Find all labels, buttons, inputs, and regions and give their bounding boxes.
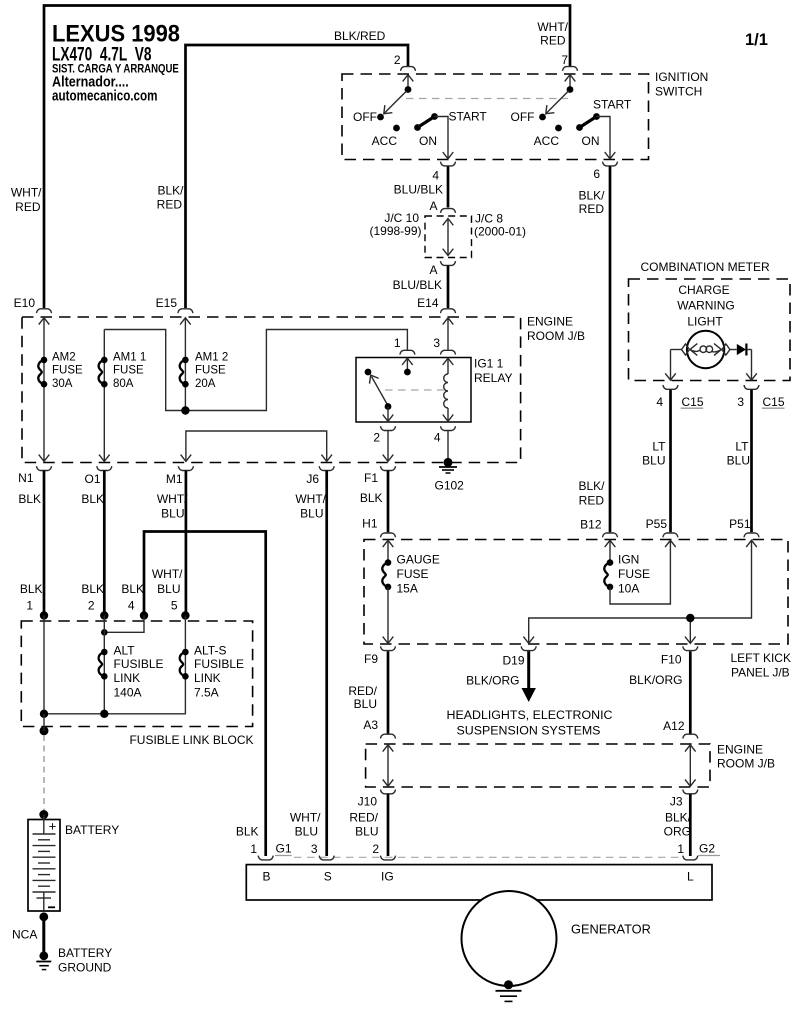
- connector E15: [156, 296, 193, 325]
- fusible link block box: [21, 621, 252, 727]
- wire BLK/RED pin 6 to B12: [609, 166, 612, 532]
- svg-text:ENGINE: ENGINE: [717, 743, 763, 757]
- svg-text:B12: B12: [580, 518, 602, 532]
- svg-text:RED: RED: [157, 198, 183, 212]
- label LT BLU left: [642, 439, 666, 467]
- connector N1: [18, 466, 51, 506]
- svg-text:SIST. CARGA Y ARRANQUE: SIST. CARGA Y ARRANQUE: [52, 61, 179, 75]
- svg-text:BLK/ORG: BLK/ORG: [466, 674, 519, 688]
- svg-text:E10: E10: [14, 296, 36, 310]
- svg-text:BLK: BLK: [18, 492, 41, 506]
- headlights text: [447, 708, 613, 738]
- svg-text:4: 4: [434, 431, 441, 445]
- svg-text:3: 3: [433, 336, 440, 350]
- connector 3 C15: [737, 385, 785, 409]
- svg-text:START: START: [593, 98, 632, 112]
- ignition switch pole 1: [353, 75, 487, 159]
- svg-text:WHT/: WHT/: [11, 186, 42, 200]
- junction dots bottom rail: [40, 710, 109, 718]
- junction dot on terminal 2 wire: [101, 629, 108, 636]
- relay link dashed: [385, 389, 444, 391]
- battery ground: [36, 951, 51, 969]
- wire LT BLU right to P51: [750, 390, 753, 533]
- svg-text:2: 2: [394, 53, 401, 67]
- wire J3 to generator L: [689, 794, 692, 856]
- svg-text:BLK/: BLK/: [578, 189, 605, 203]
- pass-through arrow A12-J3: [685, 745, 696, 786]
- svg-text:F1: F1: [364, 471, 378, 485]
- svg-text:FUSE: FUSE: [52, 365, 83, 377]
- svg-text:BLK/ORG: BLK/ORG: [629, 673, 682, 687]
- node battery positive dot: [39, 810, 48, 819]
- generator ground: [496, 980, 522, 1001]
- svg-text:O1: O1: [84, 472, 100, 486]
- ignition switch label: [655, 70, 708, 99]
- svg-text:LIGHT: LIGHT: [687, 315, 723, 329]
- wire relay pin 2 to F1: [383, 431, 394, 461]
- svg-text:ORG: ORG: [664, 825, 691, 839]
- svg-text:SWITCH: SWITCH: [655, 85, 702, 99]
- ignition switch pole 2: [511, 75, 632, 159]
- svg-text:BLU: BLU: [161, 507, 184, 521]
- svg-text:BLK/: BLK/: [665, 811, 692, 825]
- svg-text:BLU: BLU: [295, 825, 318, 839]
- svg-text:G1: G1: [276, 842, 292, 856]
- connector pin 6: [593, 162, 617, 181]
- svg-text:J/C 8: J/C 8: [475, 212, 503, 226]
- title block: [52, 21, 180, 105]
- svg-text:G102: G102: [435, 479, 465, 493]
- label BLK/RED at E15 wire: [157, 184, 185, 212]
- svg-text:1: 1: [26, 599, 33, 613]
- connector generator IG: [381, 856, 396, 860]
- svg-text:NCA: NCA: [12, 928, 37, 942]
- wire J10 to generator IG: [387, 794, 390, 856]
- label BLU/BLK upper: [394, 182, 443, 213]
- wire generator B to fusible link 4: [144, 532, 266, 857]
- svg-text:RED/: RED/: [348, 684, 377, 698]
- svg-text:LT: LT: [652, 439, 666, 453]
- connector relay pin 1: [394, 336, 415, 355]
- svg-text:RED: RED: [579, 494, 605, 508]
- wire N1 to fusible link block: [43, 471, 46, 616]
- svg-text:FUSE: FUSE: [397, 567, 429, 581]
- svg-text:E15: E15: [156, 296, 178, 310]
- connector pin 4: [432, 162, 455, 183]
- svg-text:J/C 10: J/C 10: [384, 211, 419, 225]
- svg-text:BLU: BLU: [300, 507, 323, 521]
- charge warning light bulb: [671, 331, 737, 368]
- svg-text:1/1: 1/1: [745, 31, 768, 49]
- ignition switch box: [342, 74, 649, 160]
- svg-text:J10: J10: [358, 795, 378, 809]
- connector F9: [364, 646, 396, 666]
- junction dot AM1-2 / bus: [181, 406, 189, 414]
- svg-text:OFF: OFF: [353, 110, 377, 124]
- connector 4 C15: [656, 385, 704, 409]
- svg-text:4: 4: [128, 599, 135, 613]
- connector B12: [580, 518, 617, 538]
- C15 underline left: [681, 407, 704, 409]
- svg-text:BLK: BLK: [20, 582, 43, 596]
- svg-text:OFF: OFF: [511, 110, 535, 124]
- connector F10: [661, 646, 698, 666]
- label WHT/RED at pin 7: [537, 20, 568, 48]
- svg-text:HEADLIGHTS, ELECTRONIC: HEADLIGHTS, ELECTRONIC: [447, 708, 613, 722]
- left kick panel label: [731, 651, 791, 680]
- connector P51: [729, 517, 759, 537]
- battery cable dashed: [43, 735, 45, 810]
- svg-text:BLK: BLK: [236, 825, 259, 839]
- svg-text:BLU/BLK: BLU/BLK: [394, 182, 443, 196]
- svg-text:COMBINATION METER: COMBINATION METER: [641, 260, 770, 274]
- svg-text:AM1 1: AM1 1: [113, 352, 146, 364]
- svg-text:BLU: BLU: [157, 582, 180, 596]
- svg-text:ROOM J/B: ROOM J/B: [527, 329, 585, 343]
- wire LT BLU left to P55: [669, 390, 672, 533]
- label WHT/RED left wire: [11, 186, 42, 215]
- svg-text:A: A: [429, 199, 437, 213]
- svg-text:1: 1: [394, 336, 401, 350]
- svg-text:4: 4: [432, 169, 439, 183]
- connector E14: [441, 309, 456, 325]
- stub rail to boundary dot: [43, 714, 45, 731]
- wire BLU/BLK pin 4 to J/C: [447, 167, 450, 208]
- connector A12: [683, 734, 698, 738]
- svg-text:BLK/RED: BLK/RED: [334, 29, 386, 43]
- connector A3: [381, 734, 396, 738]
- label BLK/ORG A12: [629, 673, 685, 733]
- svg-text:7: 7: [561, 53, 568, 67]
- svg-text:ENGINE: ENGINE: [527, 315, 573, 329]
- svg-text:WHT/: WHT/: [537, 20, 568, 34]
- wire O1 to fusible link block: [103, 471, 106, 616]
- fuse AM2 with wire E10-N1: [38, 318, 83, 461]
- svg-text:RED: RED: [579, 202, 605, 216]
- svg-text:P55: P55: [646, 517, 668, 531]
- wire relay pin 4 to ground: [447, 431, 449, 462]
- svg-text:BLK: BLK: [81, 582, 104, 596]
- wire F10 to A12: [689, 651, 692, 733]
- relay label: [474, 357, 512, 386]
- svg-text:S: S: [324, 870, 332, 884]
- svg-text:BLU: BLU: [355, 825, 378, 839]
- svg-text:BATTERY: BATTERY: [58, 946, 112, 960]
- label J/C 10 (1998-99): [369, 211, 421, 238]
- svg-text:2: 2: [372, 842, 379, 856]
- wire F1 to H1: [387, 471, 390, 533]
- svg-text:BLU: BLU: [727, 454, 750, 468]
- svg-text:BLK/: BLK/: [157, 184, 184, 198]
- svg-text:3: 3: [737, 395, 744, 409]
- engine room J/B 2 label: [717, 743, 775, 771]
- connector O1: [81, 466, 111, 506]
- G2 underline: [699, 855, 721, 857]
- wire F9 to A3: [387, 651, 390, 733]
- svg-text:C15: C15: [682, 395, 704, 409]
- svg-text:automecanico.com: automecanico.com: [52, 88, 158, 104]
- battery: [28, 815, 60, 912]
- svg-text:FUSE: FUSE: [618, 567, 650, 581]
- svg-text:F9: F9: [364, 652, 378, 666]
- svg-text:J6: J6: [306, 472, 319, 486]
- connector pin 2: [394, 53, 416, 71]
- generator connector strip dashed: [294, 856, 680, 858]
- svg-text:IGN: IGN: [618, 553, 639, 567]
- label LT BLU right: [727, 439, 750, 467]
- wire E14 to relay pin 3: [447, 318, 449, 350]
- svg-text:ON: ON: [582, 134, 600, 148]
- svg-text:LINK: LINK: [194, 671, 221, 685]
- meter exit drop right: [746, 350, 757, 381]
- label BLK/ORG 1 G2: [664, 811, 716, 857]
- relay switch contact: [365, 358, 413, 421]
- diode: [737, 344, 752, 356]
- wire BLK/RED E15 to ignition pin 2: [186, 45, 409, 308]
- connector relay pin 3: [433, 336, 455, 355]
- connector relay pin 4: [434, 426, 456, 444]
- svg-text:BLK: BLK: [360, 491, 383, 505]
- svg-text:BATTERY: BATTERY: [65, 823, 119, 837]
- C15 underline right: [762, 407, 785, 409]
- engine room J/B label: [527, 315, 585, 344]
- svg-text:A3: A3: [363, 718, 378, 732]
- connector E10: [14, 296, 52, 325]
- label J/C 8 (2000-01): [474, 212, 526, 239]
- connector F1: [360, 466, 396, 505]
- svg-text:6: 6: [593, 167, 600, 181]
- svg-text:LINK: LINK: [114, 671, 141, 685]
- svg-text:FUSE: FUSE: [113, 365, 144, 377]
- battery ground label: [58, 946, 112, 975]
- svg-text:WARNING: WARNING: [677, 299, 735, 313]
- svg-text:PANEL J/B: PANEL J/B: [731, 666, 790, 680]
- svg-text:WHT/: WHT/: [152, 567, 183, 581]
- svg-text:B: B: [263, 870, 271, 884]
- svg-text:BLU: BLU: [642, 454, 665, 468]
- FLB jog terminal 4 to 2: [104, 616, 144, 633]
- ground G102: [435, 458, 465, 493]
- svg-text:H1: H1: [362, 517, 378, 531]
- svg-text:FUSIBLE: FUSIBLE: [194, 657, 244, 671]
- svg-text:START: START: [449, 110, 488, 124]
- svg-text:P51: P51: [729, 517, 751, 531]
- label BLK/RED below pin 6: [578, 189, 605, 217]
- svg-text:3: 3: [311, 842, 318, 856]
- svg-text:BLK/: BLK/: [578, 479, 605, 493]
- svg-text:ROOM J/B: ROOM J/B: [717, 757, 775, 771]
- generator terminal labels: [263, 870, 695, 884]
- svg-text:L: L: [687, 870, 694, 884]
- svg-text:N1: N1: [18, 471, 34, 485]
- svg-text:GAUGE: GAUGE: [397, 553, 440, 567]
- junction connector J/C box: [425, 209, 472, 266]
- fusible link ALT-S: [44, 616, 244, 714]
- svg-text:SUSPENSION SYSTEMS: SUSPENSION SYSTEMS: [457, 724, 601, 738]
- svg-text:ACC: ACC: [372, 134, 398, 148]
- wire BLU/BLK J/C to E14: [447, 266, 450, 308]
- internal rail P51 to D19 and F10: [523, 540, 756, 643]
- label A BLU/BLK E14: [393, 263, 442, 310]
- connector J10: [358, 790, 396, 809]
- combination meter box: [629, 279, 791, 381]
- svg-text:7.5A: 7.5A: [194, 686, 219, 700]
- FLB wire terminal 1 down: [43, 616, 45, 714]
- fuse AM1 1 with wire to O1: [99, 330, 147, 462]
- svg-text:RED: RED: [15, 200, 41, 214]
- charge warning light label: [677, 283, 735, 329]
- svg-text:FUSIBLE LINK BLOCK: FUSIBLE LINK BLOCK: [129, 733, 253, 747]
- pass-through arrow A3-J10: [383, 745, 394, 786]
- svg-text:LT: LT: [735, 439, 749, 453]
- connector J6: [295, 466, 334, 520]
- svg-text:IGNITION: IGNITION: [655, 70, 708, 84]
- arrow to headlights: [466, 651, 536, 702]
- svg-text:FUSE: FUSE: [195, 365, 226, 377]
- svg-text:+: +: [49, 819, 57, 834]
- svg-text:1: 1: [250, 842, 257, 856]
- FLB terminal labels BLK 2: [81, 582, 104, 613]
- svg-text:BLK: BLK: [81, 492, 104, 506]
- battery negative wire NCA: [12, 912, 48, 955]
- svg-text:J3: J3: [670, 795, 683, 809]
- label RED/BLU A3: [348, 684, 378, 732]
- relay coil: [443, 358, 454, 421]
- connector pin 7: [561, 53, 577, 71]
- svg-text:LEFT KICK: LEFT KICK: [731, 651, 791, 665]
- svg-text:C15: C15: [763, 395, 785, 409]
- connector J3: [670, 790, 698, 809]
- svg-text:(2000-01): (2000-01): [474, 225, 526, 239]
- svg-text:4: 4: [656, 395, 663, 409]
- svg-text:A12: A12: [663, 719, 685, 733]
- svg-text:ON: ON: [419, 134, 437, 148]
- connector M1: [157, 466, 194, 520]
- svg-text:10A: 10A: [618, 582, 639, 596]
- relay IG1 1 box: [356, 358, 471, 423]
- svg-text:WHT/: WHT/: [290, 811, 321, 825]
- connector generator B: [258, 856, 273, 860]
- svg-text:1: 1: [677, 842, 684, 856]
- svg-text:BLU: BLU: [354, 697, 377, 711]
- svg-text:E14: E14: [417, 296, 439, 310]
- svg-text:ACC: ACC: [534, 134, 560, 148]
- svg-text:BLU/BLK: BLU/BLK: [393, 278, 442, 292]
- label BLK/RED above B12: [578, 479, 605, 508]
- svg-text:WHT/: WHT/: [295, 492, 326, 506]
- left kick panel J/B box: [364, 540, 788, 645]
- generator box: [246, 865, 712, 900]
- svg-text:80A: 80A: [113, 378, 134, 390]
- fusible link ALT: [99, 616, 164, 714]
- FLB terminal labels BLK 4: [121, 582, 144, 613]
- svg-text:GROUND: GROUND: [58, 961, 112, 975]
- svg-text:WHT/: WHT/: [157, 492, 188, 506]
- svg-text:RED: RED: [540, 34, 566, 48]
- connector generator S: [319, 856, 334, 860]
- label BLK 1 G1 at generator B: [236, 825, 292, 857]
- svg-text:BLK: BLK: [121, 582, 144, 596]
- wire J6 to generator S: [325, 471, 328, 857]
- label WHT/BLU 3 at generator S: [290, 811, 321, 857]
- svg-text:A: A: [429, 263, 437, 277]
- connector D19: [502, 646, 536, 667]
- FLB terminal labels BLK 1: [20, 582, 43, 613]
- svg-text:20A: 20A: [195, 378, 216, 390]
- svg-text:(1998-99): (1998-99): [369, 224, 421, 238]
- bracket M1 J6: [181, 431, 332, 461]
- terminal dots on FLB top: [40, 611, 190, 619]
- svg-text:RELAY: RELAY: [474, 371, 512, 385]
- connector H1: [362, 517, 395, 538]
- junction dot F10 rail: [686, 614, 694, 622]
- label RED/BLU 2: [349, 811, 379, 857]
- svg-text:IG1 1: IG1 1: [474, 357, 504, 371]
- svg-text:15A: 15A: [397, 582, 418, 596]
- svg-text:IG: IG: [381, 870, 394, 884]
- wire WHT/RED battery column to ignition pin 7: [44, 6, 570, 309]
- svg-text:2: 2: [88, 599, 95, 613]
- svg-text:ALT: ALT: [114, 644, 136, 658]
- svg-text:RED/: RED/: [349, 811, 378, 825]
- engine room J/B box 2: [366, 744, 710, 787]
- node battery feed dot: [40, 726, 49, 735]
- FLB terminal labels WHT/BLU 5: [152, 567, 183, 613]
- svg-text:G2: G2: [699, 842, 715, 856]
- connector generator L: [683, 856, 698, 860]
- fuse AM1 2 with wire E15 down: [180, 318, 229, 411]
- engine room J/B box 1: [22, 317, 521, 463]
- svg-text:M1: M1: [166, 472, 183, 486]
- svg-text:2: 2: [373, 431, 380, 445]
- svg-text:D19: D19: [502, 654, 524, 668]
- svg-text:30A: 30A: [52, 378, 73, 390]
- svg-text:F10: F10: [661, 653, 682, 667]
- fuse GAUGE with H1 entry: [382, 540, 440, 643]
- svg-text:AM2: AM2: [52, 352, 76, 364]
- connector relay pin 2: [373, 426, 395, 444]
- internal bus AM1-1 top to relay pin 1: [104, 330, 407, 411]
- svg-text:ALT-S: ALT-S: [194, 644, 226, 658]
- svg-text:GENERATOR: GENERATOR: [571, 922, 651, 937]
- mechanical link dashed line: [406, 98, 568, 100]
- svg-text:FUSIBLE: FUSIBLE: [114, 657, 164, 671]
- wire M1 to fusible link block: [185, 471, 188, 616]
- svg-text:CHARGE: CHARGE: [678, 283, 729, 297]
- svg-text:140A: 140A: [114, 686, 142, 700]
- fuse IGN with B12 entry: [604, 540, 675, 604]
- svg-text:5: 5: [171, 599, 178, 613]
- connector P55: [646, 517, 678, 537]
- svg-text:AM1 2: AM1 2: [195, 352, 228, 364]
- meter exit drop left: [665, 350, 676, 381]
- G1 underline: [275, 855, 292, 857]
- generator circle: [462, 891, 557, 986]
